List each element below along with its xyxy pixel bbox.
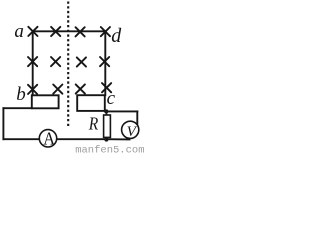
rotation axis dashed line (67, 2, 69, 128)
wire: right rail to voltmeter (105, 110, 137, 112)
wire: loop left edge a-b (32, 31, 34, 95)
wire: resistor bottom stub (105, 137, 107, 139)
field cross mid right-wire (100, 57, 109, 66)
field cross b corner (28, 85, 37, 94)
voltmeter V circle (122, 121, 139, 138)
junction dot resistor bottom (104, 138, 108, 142)
wire: bottom rail through ammeter (3, 138, 129, 140)
svg-text:manfen5.com: manfen5.com (75, 145, 144, 154)
field cross a corner (28, 27, 37, 36)
svg-text:d: d (111, 25, 122, 47)
svg-text:A: A (43, 128, 55, 148)
field cross c corner (102, 83, 111, 92)
svg-text:c: c (107, 88, 116, 109)
wire: loop right edge d-c (104, 31, 106, 95)
commutator segment box right (77, 95, 105, 111)
svg-text:R: R (88, 113, 98, 133)
field cross d corner (101, 27, 110, 36)
commutator segment box left (32, 95, 59, 108)
svg-text:a: a (14, 21, 24, 42)
wire: loop top edge a-d (33, 30, 106, 32)
field cross mid left-wire (28, 57, 37, 66)
field cross bottom inner-left (53, 85, 62, 94)
field cross mid inner-left (51, 57, 60, 66)
resistor R body (104, 115, 111, 137)
wire: left vertical wire (2, 108, 4, 139)
field cross mid inner-right (77, 57, 86, 66)
wire: voltmeter top stub (136, 111, 138, 126)
junction dot resistor top (104, 109, 108, 113)
field cross bottom inner-right (76, 84, 85, 93)
wire: left rail to brush (3, 107, 31, 109)
wire: resistor top stub (105, 111, 107, 115)
field cross top 3 (76, 27, 85, 36)
ammeter A circle (39, 130, 56, 147)
field cross top 2 (51, 27, 60, 36)
svg-text:b: b (16, 84, 26, 105)
